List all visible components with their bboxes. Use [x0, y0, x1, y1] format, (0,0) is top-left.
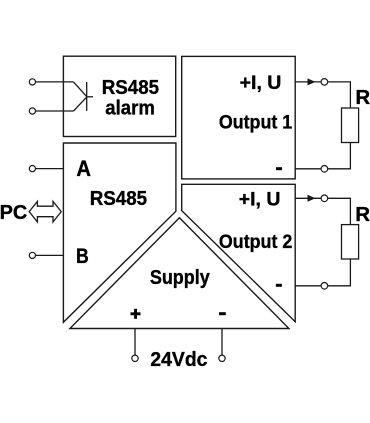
svg-text:RS485: RS485 [90, 188, 148, 211]
wire 24Vdc plus stub [134, 329, 136, 356]
svg-text:PC: PC [0, 202, 28, 224]
wire output1 plus [295, 81, 321, 83]
PC bidirectional arrow [29, 201, 61, 222]
svg-text:RS485: RS485 [102, 76, 160, 99]
svg-text:+I, U: +I, U [239, 189, 281, 211]
transistor Q1 base bar [86, 82, 88, 111]
svg-text:A: A [76, 157, 91, 181]
svg-text:Supply: Supply [150, 267, 210, 289]
wire resistor R2 bottom to output2 minus terminal [327, 259, 350, 286]
wire output2 minus [295, 285, 321, 287]
terminal B [29, 252, 35, 258]
resistor R2 [342, 225, 359, 259]
arrow output2 direction [308, 195, 316, 202]
svg-text:R: R [355, 203, 370, 226]
wire output1 minus [295, 168, 321, 170]
block U4 Output 2 box [182, 184, 296, 321]
terminal output1 minus [321, 166, 328, 173]
wire resistor R1 bottom to output1 minus terminal [327, 143, 350, 169]
svg-text:Output 1: Output 1 [219, 111, 292, 133]
svg-text:alarm: alarm [105, 98, 155, 120]
terminal output1 plus [321, 79, 328, 86]
svg-text:R: R [355, 86, 370, 109]
wire output2 plus to resistor [327, 198, 350, 224]
label minus (output2) [276, 284, 282, 287]
block U1 RS485 alarm box [63, 56, 175, 136]
resistor R1 [342, 108, 359, 143]
label minus (24Vdc) [219, 312, 226, 315]
wire output1 plus to resistor [327, 82, 350, 108]
terminal output2 plus [321, 195, 328, 202]
terminal 24Vdc plus [132, 355, 138, 361]
label minus (output1) [276, 167, 282, 170]
label plus (24Vdc) [131, 309, 141, 319]
wire 24Vdc minus stub [221, 329, 223, 356]
terminal 24Vdc minus [219, 355, 225, 361]
svg-text:B: B [76, 244, 89, 268]
wire output2 plus [295, 197, 321, 199]
terminal alarm 2 [29, 108, 35, 114]
wire alarm terminal 1 [36, 81, 74, 83]
svg-text:Output 2: Output 2 [219, 231, 292, 253]
wire RS485 line A [36, 168, 64, 170]
wire alarm terminal 2 [36, 110, 74, 112]
terminal alarm 1 [29, 79, 35, 85]
transistor Q1 collector diagonal [74, 82, 87, 97]
terminal output2 minus [321, 283, 328, 290]
block U3 Output 1 box [182, 56, 296, 178]
svg-text:+I, U: +I, U [240, 72, 282, 94]
wire RS485 line B [36, 254, 64, 256]
block U5 Supply triangle [70, 218, 289, 329]
terminal A [29, 166, 35, 172]
arrow output1 direction [308, 78, 316, 85]
transistor Q1 base lead tick [87, 96, 93, 98]
block U2 RS485 interface box [63, 143, 175, 322]
transistor Q1 emitter diagonal [74, 97, 87, 111]
svg-text:24Vdc: 24Vdc [150, 349, 207, 371]
